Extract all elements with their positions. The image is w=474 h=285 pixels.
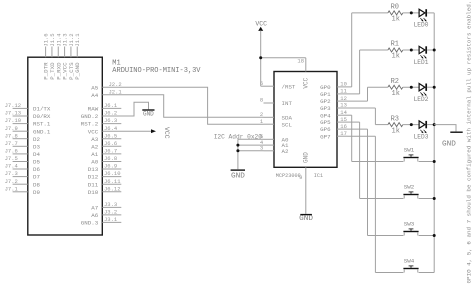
svg-text:LED2: LED2 — [414, 96, 429, 103]
svg-text:J7.6: J7.6 — [5, 148, 18, 155]
svg-text:A6: A6 — [91, 212, 98, 219]
svg-text:LED0: LED0 — [414, 22, 429, 29]
svg-text:J7.10: J7.10 — [5, 117, 22, 124]
svg-text:18: 18 — [297, 58, 304, 65]
svg-text:INT: INT — [282, 100, 293, 107]
svg-text:1k: 1k — [392, 53, 400, 61]
svg-text:A2: A2 — [91, 143, 98, 150]
svg-text:SCL: SCL — [282, 121, 293, 128]
svg-text:GP5: GP5 — [320, 119, 331, 126]
svg-text:SW2: SW2 — [404, 184, 415, 191]
svg-text:A4: A4 — [91, 92, 98, 99]
svg-text:J7.5: J7.5 — [5, 155, 18, 162]
svg-text:D0/RX: D0/RX — [33, 113, 51, 120]
svg-text:D13: D13 — [88, 166, 99, 173]
svg-text:J7.7: J7.7 — [5, 140, 18, 147]
svg-text:R1: R1 — [391, 41, 399, 49]
svg-text:1k: 1k — [392, 90, 400, 98]
svg-text:GP7: GP7 — [320, 133, 331, 140]
svg-text:R3: R3 — [391, 115, 399, 123]
svg-text:1k: 1k — [392, 127, 400, 135]
svg-text:GND: GND — [231, 173, 245, 181]
svg-text:J7.3: J7.3 — [5, 170, 18, 177]
svg-text:GP0: GP0 — [320, 84, 331, 91]
svg-text:10: 10 — [340, 81, 347, 88]
svg-text:SW1: SW1 — [404, 147, 415, 154]
svg-text:RST.2: RST.2 — [81, 121, 99, 128]
svg-text:GND.2: GND.2 — [81, 113, 99, 120]
svg-text:GP1: GP1 — [320, 91, 331, 98]
svg-text:A0: A0 — [91, 159, 98, 166]
svg-text:D12: D12 — [88, 174, 99, 181]
svg-text:VCC: VCC — [163, 127, 170, 139]
svg-text:D4: D4 — [33, 151, 40, 158]
svg-text:P_GND: P_GND — [74, 62, 81, 80]
svg-text:D2: D2 — [33, 136, 40, 143]
svg-text:GND.3: GND.3 — [81, 220, 99, 227]
svg-text:A2: A2 — [282, 148, 289, 155]
svg-text:D1/TX: D1/TX — [33, 106, 51, 113]
svg-text:8: 8 — [260, 97, 263, 104]
svg-text:D8: D8 — [33, 181, 40, 188]
svg-text:SW4: SW4 — [404, 258, 415, 265]
svg-text:J1.1: J1.1 — [74, 33, 81, 47]
svg-text:GND: GND — [303, 152, 310, 163]
svg-text:GND: GND — [299, 215, 313, 223]
svg-text:SW3: SW3 — [404, 221, 415, 228]
svg-text:J3.3: J3.3 — [104, 201, 117, 208]
svg-text:15: 15 — [340, 116, 347, 123]
svg-text:ARDUINO-PRO-MINI-3,3V: ARDUINO-PRO-MINI-3,3V — [112, 67, 201, 75]
svg-text:J3.1: J3.1 — [104, 216, 118, 223]
svg-text:D11: D11 — [88, 181, 99, 188]
svg-text:D3: D3 — [33, 143, 40, 150]
svg-text:17: 17 — [340, 130, 347, 137]
svg-text:D5: D5 — [33, 159, 40, 166]
svg-text:1k: 1k — [392, 16, 400, 24]
svg-text:VCC: VCC — [303, 77, 310, 88]
svg-text:MCP23008: MCP23008 — [276, 173, 301, 179]
svg-text:J7.9: J7.9 — [5, 125, 18, 132]
svg-text:VCC: VCC — [255, 21, 267, 28]
svg-text:GP6: GP6 — [320, 126, 331, 133]
svg-text:A3: A3 — [91, 136, 98, 143]
svg-text:J7.13: J7.13 — [5, 110, 22, 117]
svg-text:A1: A1 — [91, 151, 98, 158]
svg-text:D6: D6 — [33, 166, 40, 173]
svg-text:GP3: GP3 — [320, 105, 331, 112]
svg-text:LED1: LED1 — [414, 59, 429, 66]
svg-text:R0: R0 — [391, 4, 399, 12]
svg-text:11: 11 — [340, 88, 347, 95]
svg-text:9: 9 — [299, 174, 302, 181]
svg-text:VCC: VCC — [88, 128, 99, 135]
svg-text:LED3: LED3 — [414, 133, 429, 140]
svg-text:J7.4: J7.4 — [5, 163, 19, 170]
svg-text:RAW: RAW — [88, 106, 99, 113]
svg-text:13: 13 — [340, 102, 347, 109]
svg-text:R2: R2 — [391, 78, 399, 86]
svg-text:J3.2: J3.2 — [104, 209, 117, 216]
svg-text:/RST: /RST — [282, 83, 296, 90]
svg-text:J7.12: J7.12 — [5, 102, 22, 109]
svg-text:GPIO 4, 5, 6 and 7 should be c: GPIO 4, 5, 6 and 7 should be configured … — [465, 1, 472, 284]
svg-text:A5: A5 — [91, 84, 98, 91]
svg-text:D7: D7 — [33, 174, 40, 181]
svg-text:GND: GND — [442, 140, 456, 148]
svg-text:GND: GND — [143, 111, 154, 118]
svg-text:D10: D10 — [88, 189, 99, 196]
svg-text:16: 16 — [340, 123, 347, 130]
svg-text:IC1: IC1 — [314, 173, 323, 179]
svg-text:J7.8: J7.8 — [5, 132, 18, 139]
svg-text:D9: D9 — [33, 189, 40, 196]
svg-text:J7.2: J7.2 — [5, 178, 18, 185]
svg-text:A7: A7 — [91, 205, 98, 212]
svg-text:RST.1: RST.1 — [33, 121, 51, 128]
svg-text:J7.1: J7.1 — [5, 185, 19, 192]
svg-text:GND.1: GND.1 — [33, 128, 51, 135]
